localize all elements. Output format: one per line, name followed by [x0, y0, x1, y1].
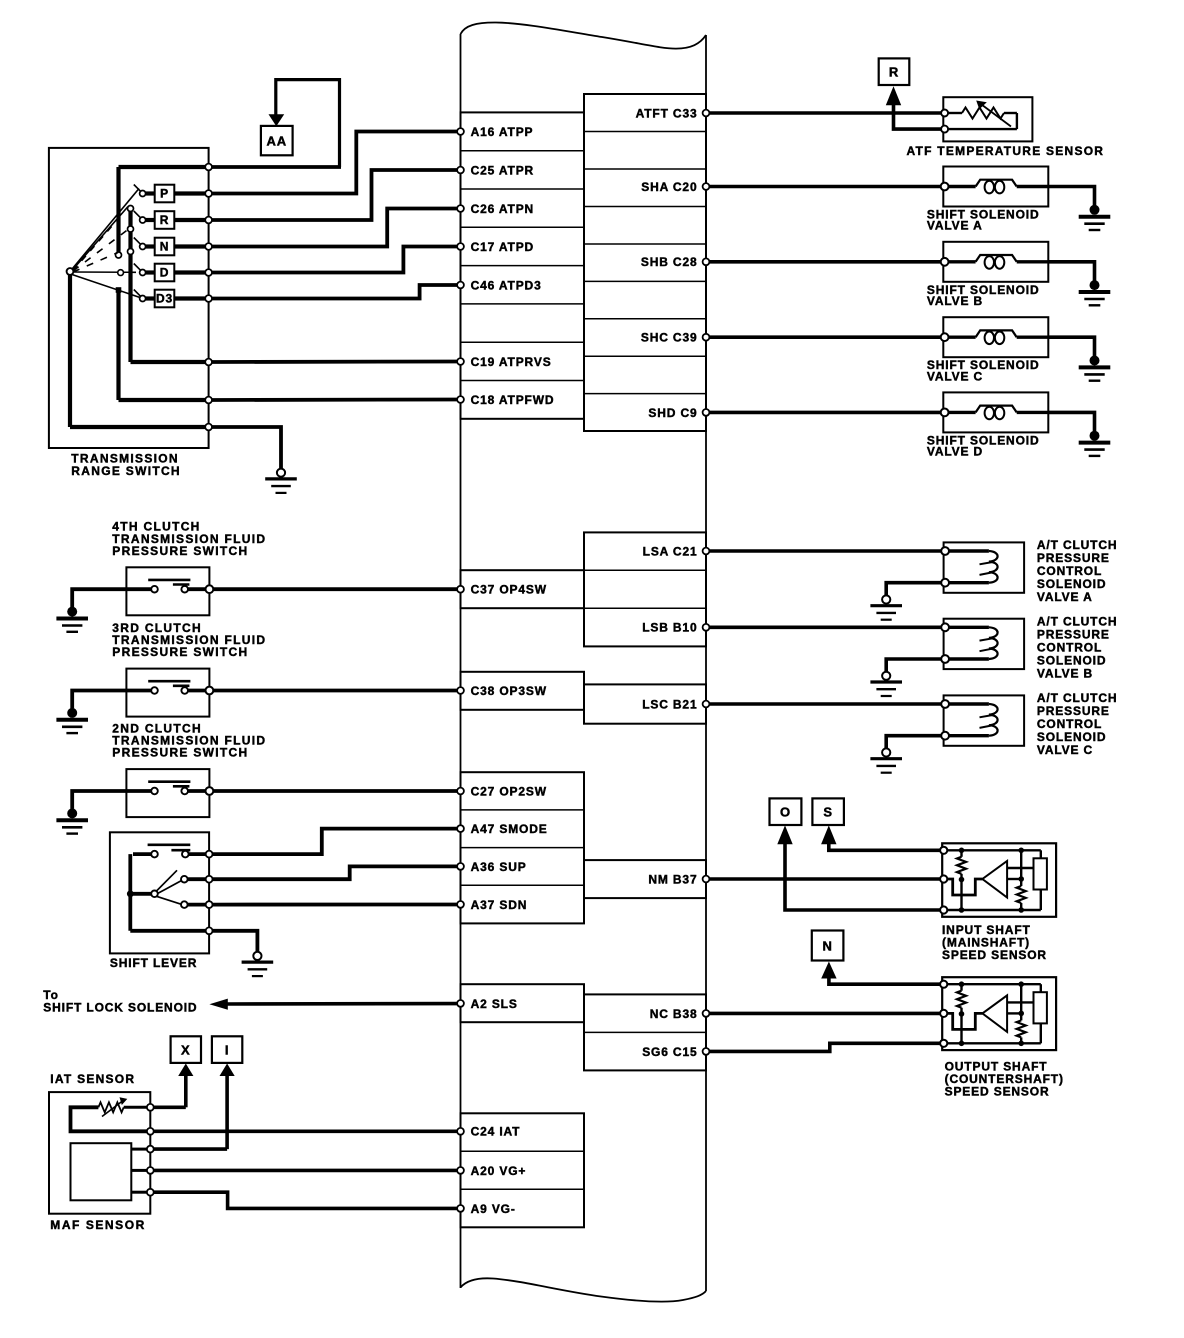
wire ATPD3 (D3 contact to pin C46) [212, 285, 457, 299]
svg-text:SOLENOID: SOLENOID [1037, 730, 1106, 744]
input shaft speed sensor junction [959, 907, 965, 913]
svg-text:NC B38: NC B38 [650, 1007, 698, 1021]
svg-text:A2 SLS: A2 SLS [471, 997, 518, 1011]
svg-text:IAT SENSOR: IAT SENSOR [50, 1072, 135, 1086]
A/T valve C pin 2 [941, 732, 949, 740]
pin LSC B21 [642, 697, 709, 711]
ground of A/T clutch valve C [870, 748, 902, 772]
label To SHIFT LOCK SOLENOID [43, 988, 197, 1014]
svg-text:D: D [160, 266, 170, 280]
arrow into connector N [821, 962, 836, 979]
output shaft speed sensor junction [959, 981, 965, 987]
wire LSB to A/T clutch pressure control solenoid valve B [710, 625, 942, 629]
ground of 3rd clutch pressure switch [56, 708, 88, 733]
svg-text:C26 ATPN: C26 ATPN [471, 202, 534, 216]
wire shift solenoid valve B to ground [1048, 262, 1094, 281]
A/T valve B pin 1 [941, 623, 949, 631]
pin C19 ATPRVS [457, 355, 551, 369]
2nd clutch switch contact 1 [151, 788, 158, 795]
wire rail A to terminal AA row [119, 165, 206, 169]
svg-text:S: S [823, 805, 833, 820]
wire connector R to sensor low side [894, 104, 942, 129]
shift lever terminal GND [206, 927, 213, 934]
4th clutch pressure switch box [126, 567, 209, 615]
connector O [770, 798, 802, 825]
wire rail ATPFWD upper segment [116, 167, 120, 252]
shift lever up contact [181, 876, 188, 883]
input shaft speed sensor bottom rail [947, 909, 1041, 911]
range switch terminal GND [205, 424, 212, 431]
2nd clutch switch output terminal [206, 787, 214, 795]
svg-text:CONTROL: CONTROL [1037, 717, 1102, 731]
svg-text:VALVE A: VALVE A [927, 219, 983, 233]
wire wiper to terminal GND [70, 425, 205, 429]
wire rail ATPRVS upper segment [128, 211, 132, 226]
wire 2nd clutch switch to pin C27 OP2SW [213, 789, 457, 793]
label TRANSMISSION RANGE SWITCH [71, 452, 181, 478]
pin SHB C28 [641, 255, 710, 269]
svg-text:N: N [822, 938, 832, 953]
svg-text:A16 ATPP: A16 ATPP [471, 125, 534, 139]
ground of shift lever [242, 952, 274, 976]
shift solenoid valve C pin [941, 333, 949, 341]
wire shift lever ground run [213, 931, 258, 952]
wire wiper to ground row [68, 275, 72, 427]
wire IAT return [71, 1107, 147, 1131]
MAF stub 2 [131, 1169, 147, 1172]
wire SG6 C15 to output sensor pin 3 [710, 1043, 941, 1051]
svg-text:A/T CLUTCH: A/T CLUTCH [1037, 614, 1118, 628]
svg-text:PRESSURE: PRESSURE [1037, 627, 1110, 641]
svg-text:A36 SUP: A36 SUP [471, 860, 527, 874]
wire rail ATPRVS mid segment [128, 232, 132, 249]
shift lever terminal SDN [206, 901, 213, 908]
ground of shift solenoid valve D [1079, 431, 1111, 456]
ground of 2nd clutch pressure switch [56, 808, 88, 833]
wire 3rd clutch switch contact to terminal [188, 689, 206, 693]
pin A9 VG- [457, 1202, 516, 1216]
wiper line to D contact [74, 271, 137, 273]
pin C46 ATPD3 [457, 278, 542, 292]
input shaft speed sensor load resistor R3 [1034, 850, 1047, 910]
wire IAT to connector X [154, 1106, 186, 1110]
pin SG6 C15 [642, 1045, 709, 1059]
wire common rail to GND terminal [130, 929, 205, 933]
pin SHD C9 [648, 406, 709, 420]
3rd clutch pressure switch box [126, 669, 209, 717]
shift lever terminal SMODE [206, 851, 213, 858]
svg-text:C38 OP3SW: C38 OP3SW [471, 684, 547, 698]
wire rail B to terminal RVS [131, 360, 206, 364]
shift solenoid valve A pin [941, 183, 949, 191]
pin A36 SUP [457, 860, 526, 874]
solenoid coil LA [949, 180, 1049, 194]
label INPUT SHAFT (MAINSHAFT) SPEED SENSOR [942, 923, 1047, 962]
output shaft speed sensor junction [959, 1011, 965, 1017]
svg-text:R: R [160, 213, 170, 227]
svg-text:NM B37: NM B37 [648, 872, 697, 886]
pin A2 SLS [457, 997, 518, 1011]
output shaft speed sensor junction [959, 1041, 965, 1047]
pin C38 OP3SW [457, 684, 547, 698]
output shaft speed sensor box [942, 977, 1056, 1050]
label SHIFT SOLENOID VALVE A [927, 208, 1040, 233]
svg-text:I: I [225, 1042, 229, 1057]
svg-text:AA: AA [267, 133, 287, 148]
wire A/T valve B to ground [886, 659, 941, 672]
wire 3rd clutch switch to pin C38 OP3SW [213, 689, 457, 693]
arrow into connector O [777, 825, 792, 844]
input shaft speed sensor pull resistor R2 [1017, 850, 1026, 910]
svg-text:SOLENOID: SOLENOID [1037, 577, 1106, 591]
input shaft speed sensor amp output wire upper [1007, 867, 1033, 869]
input shaft speed sensor amp output wire [1007, 878, 1021, 880]
A/T valve A pin 1 [941, 547, 949, 555]
output shaft speed sensor amplifier [982, 995, 1007, 1032]
range switch contact D [134, 264, 205, 282]
lever arm lines [157, 870, 182, 904]
input shaft speed sensor junction [959, 877, 965, 883]
wire connector N to output sensor pin 1 [829, 977, 941, 984]
svg-text:ATFT C33: ATFT C33 [636, 106, 698, 120]
shift lever mode switch contact 1 [151, 851, 158, 858]
svg-text:A20 VG+: A20 VG+ [471, 1164, 527, 1178]
pin A20 VG+ [457, 1164, 526, 1178]
output shaft speed sensor top rail [947, 983, 1041, 985]
output shaft speed sensor bottom rail [947, 1042, 1041, 1044]
wire SHB to shift solenoid valve B [710, 260, 942, 264]
connector cell block LSA-LSB [584, 532, 706, 646]
svg-text:C18 ATPFWD: C18 ATPFWD [471, 393, 555, 407]
input shaft speed sensor junction [1018, 848, 1024, 854]
svg-text:PRESSURE SWITCH: PRESSURE SWITCH [112, 645, 248, 659]
wire ATFT C33 to ATF temperature sensor [710, 111, 942, 115]
shift lever box [110, 832, 209, 953]
svg-text:CONTROL: CONTROL [1037, 640, 1102, 654]
wire A/T valve A to ground [886, 583, 941, 596]
wire A/T valve C to ground [886, 736, 941, 749]
shift solenoid valve D box [943, 392, 1048, 432]
MAF terminal 2 [147, 1167, 154, 1174]
wire terminal AA row to connector AA riser [212, 165, 341, 169]
pin C37 OP4SW [457, 583, 547, 597]
wire SUP to pin A36 [213, 866, 458, 879]
svg-text:A/T CLUTCH: A/T CLUTCH [1037, 538, 1118, 552]
svg-text:X: X [181, 1042, 191, 1057]
output shaft speed sensor pin 2 [940, 1010, 947, 1017]
svg-text:SHC C39: SHC C39 [641, 331, 698, 345]
arrow into connector AA [269, 114, 285, 126]
pin C26 ATPN [457, 202, 534, 216]
wire rail ATPRVS lower segment [128, 255, 132, 363]
wiper line to D3 contact [72, 275, 140, 298]
svg-text:RANGE SWITCH: RANGE SWITCH [71, 464, 181, 478]
wire common rail to lever pivot [130, 892, 151, 896]
svg-text:SHIFT LEVER: SHIFT LEVER [110, 956, 197, 970]
3rd clutch switch blade [148, 681, 190, 686]
IAT terminal 2 [147, 1128, 154, 1135]
4th clutch switch contact 1 [151, 586, 158, 593]
svg-text:C24 IAT: C24 IAT [471, 1125, 521, 1139]
svg-text:LSA C21: LSA C21 [643, 544, 698, 558]
wire NM B37 to input sensor pin 2 [710, 877, 941, 881]
wire switch ground run [212, 427, 281, 469]
solenoid coil LD [949, 406, 1049, 420]
shift lever mode switch blade [148, 845, 191, 850]
TCM/ECM torn-edge bottom curve [461, 1278, 707, 1301]
svg-text:LSC B21: LSC B21 [642, 697, 697, 711]
wire rail ATPFWD lower segment [116, 290, 120, 400]
shift lever terminal SUP [206, 876, 213, 883]
connector cell block NC-SG6 [584, 994, 706, 1070]
transmission range switch box [49, 148, 209, 448]
wire 2nd clutch switch to ground [72, 791, 151, 809]
wire connector S to input sensor pin 1 [829, 843, 941, 850]
svg-text:CONTROL: CONTROL [1037, 564, 1102, 578]
svg-text:C19 ATPRVS: C19 ATPRVS [471, 355, 552, 369]
label 2ND TRANSMISSION FLUID PRESSURE SWITCH [112, 722, 266, 760]
wire ATPFWD to pin C18 [212, 398, 457, 402]
range switch terminal RVS [205, 359, 212, 366]
wire shift solenoid valve C to ground [1048, 337, 1094, 356]
svg-text:SHIFT LOCK SOLENOID: SHIFT LOCK SOLENOID [43, 1001, 197, 1015]
svg-text:ATF TEMPERATURE SENSOR: ATF TEMPERATURE SENSOR [907, 144, 1105, 158]
svg-text:C17 ATPD: C17 ATPD [471, 240, 534, 254]
A/T valve B coil [949, 627, 998, 659]
input shaft speed sensor box [942, 843, 1056, 917]
svg-text:SHD C9: SHD C9 [648, 406, 697, 420]
wire 4th clutch switch to ground [72, 589, 151, 607]
wire SHA to shift solenoid valve A [710, 185, 942, 189]
output shaft speed sensor junction [1018, 1041, 1024, 1047]
wire 4th clutch switch to pin C37 OP4SW [213, 587, 457, 591]
ground of shift solenoid valve B [1079, 280, 1111, 305]
svg-text:C37 OP4SW: C37 OP4SW [471, 583, 547, 597]
connector X [171, 1036, 201, 1063]
wire 4th clutch switch contact to terminal [188, 587, 206, 591]
ATF sensor pin 1 [941, 110, 948, 117]
solenoid coil LC [949, 330, 1049, 344]
svg-text:VALVE D: VALVE D [927, 445, 983, 459]
svg-text:VALVE C: VALVE C [1037, 743, 1093, 757]
svg-text:VALVE B: VALVE B [927, 294, 983, 308]
contact rail A open end [116, 252, 122, 258]
connector cell LSC [584, 684, 706, 723]
svg-text:N: N [160, 240, 170, 254]
svg-text:MAF SENSOR: MAF SENSOR [50, 1218, 146, 1232]
range switch contact R [134, 211, 205, 229]
pin A47 SMODE [457, 822, 548, 836]
shift solenoid valve C box [943, 317, 1048, 357]
MAF stub 1 [131, 1148, 147, 1151]
connector cell C38 [461, 672, 585, 710]
pin C25 ATPR [457, 163, 534, 177]
A/T clutch pressure control solenoid valve B box [944, 619, 1025, 669]
shift lever pivot [151, 891, 158, 898]
input shaft speed sensor junction [1018, 907, 1024, 913]
arrow into connector X [178, 1064, 193, 1077]
output shaft speed sensor input jog wire [947, 1013, 982, 1029]
label SHIFT SOLENOID VALVE C [927, 358, 1040, 383]
input shaft speed sensor pin 2 [940, 875, 947, 882]
connector cell block ATFT-SHD [584, 94, 706, 431]
svg-text:PRESSURE SWITCH: PRESSURE SWITCH [112, 544, 248, 558]
svg-text:C27 OP2SW: C27 OP2SW [471, 784, 547, 798]
range switch terminal D3 [205, 295, 212, 302]
wiper D position contact point [118, 270, 124, 276]
shift solenoid valve A box [943, 167, 1048, 207]
wire SMODE to pin A47 [213, 829, 458, 855]
4th clutch switch output terminal [206, 585, 214, 593]
svg-text:VALVE A: VALVE A [1037, 590, 1093, 604]
wire LSA to A/T clutch pressure control solenoid valve A [710, 549, 942, 553]
svg-text:SPEED SENSOR: SPEED SENSOR [945, 1085, 1050, 1099]
A/T valve A coil [949, 551, 998, 583]
wire ATPD (D contact to pin C17) [212, 247, 457, 273]
pin C24 IAT [457, 1125, 520, 1139]
wire 2nd clutch switch contact to terminal [188, 789, 206, 793]
wiper blade to rail B [73, 207, 128, 270]
MAF terminal 3 [147, 1189, 154, 1196]
label 3RD TRANSMISSION FLUID PRESSURE SWITCH [112, 621, 266, 659]
pin A37 SDN [457, 898, 527, 912]
4th clutch switch contact 2 [181, 586, 188, 593]
label OUTPUT SHAFT (COUNTERSHAFT) SPEED SENSOR [945, 1060, 1064, 1099]
connector N [812, 931, 844, 961]
shift lever down contact [181, 901, 188, 908]
ATF sensor pin 2 [941, 126, 948, 133]
range switch terminal FWD [205, 397, 212, 404]
pin LSA C21 [643, 544, 710, 558]
connector cell C37 [461, 570, 585, 608]
input shaft speed sensor input jog wire [947, 879, 982, 895]
wire ATPR (R contact to pin C25) [212, 170, 457, 220]
2nd clutch switch blade [148, 782, 190, 787]
output shaft speed sensor load resistor R3 [1034, 984, 1047, 1043]
A/T clutch pressure control solenoid valve C box [944, 695, 1025, 745]
3rd clutch switch contact 2 [181, 687, 188, 694]
A/T clutch pressure control solenoid valve A box [944, 542, 1025, 592]
output shaft speed sensor amp output wire [1007, 1012, 1021, 1014]
arrow into connector I [220, 1064, 235, 1077]
input shaft speed sensor top rail [947, 849, 1041, 851]
pin C18 ATPFWD [457, 393, 554, 407]
TCM/ECM torn-edge top curve [461, 22, 707, 48]
4th clutch switch blade [148, 580, 190, 585]
label SHIFT SOLENOID VALVE D [927, 433, 1040, 458]
shift lever common rail [128, 854, 132, 931]
range switch contact N [134, 238, 205, 256]
svg-text:O: O [780, 805, 791, 820]
svg-text:A/T CLUTCH: A/T CLUTCH [1037, 691, 1118, 705]
pin SHC C39 [641, 331, 710, 345]
output shaft speed sensor amp output wire upper [1007, 1001, 1033, 1003]
arrow into connector R [886, 86, 901, 105]
input shaft speed sensor junction [959, 848, 965, 854]
connector I [212, 1036, 242, 1063]
range switch terminal R [205, 217, 212, 224]
range switch contact P [134, 185, 205, 203]
pin A16 ATPP [457, 125, 533, 139]
wire SHD to shift solenoid valve D [710, 411, 942, 415]
ground of A/T clutch valve B [870, 672, 902, 696]
arrow into connector S [821, 825, 836, 844]
arrow to shift lock solenoid [209, 999, 227, 1010]
svg-text:SPEED SENSOR: SPEED SENSOR [942, 948, 1047, 962]
wire mode switch to common rail [133, 852, 151, 856]
wire connector O to input sensor pin 3 [785, 843, 941, 910]
svg-text:VALVE B: VALVE B [1037, 666, 1093, 680]
svg-text:SOLENOID: SOLENOID [1037, 653, 1106, 667]
output shaft speed sensor pull resistor R2 [1017, 984, 1026, 1043]
wire SDN to pin A37 [213, 903, 458, 907]
TCM/ECM connector strip left edge [460, 34, 462, 1288]
connector AA [261, 126, 293, 155]
shift solenoid valve B box [943, 242, 1048, 282]
wire IAT to pin C24 [154, 1130, 457, 1134]
2nd clutch switch contact 2 [181, 788, 188, 795]
shift lever mode switch contact 2 [182, 851, 189, 858]
wiper dashed position line 1 [73, 222, 116, 271]
A/T valve C pin 1 [941, 700, 949, 708]
solenoid coil LB [949, 255, 1049, 269]
ground of shift solenoid valve C [1079, 356, 1111, 381]
wire ATPP (P contact to pin A16) [212, 132, 457, 194]
label 4TH TRANSMISSION FLUID PRESSURE SWITCH [112, 520, 266, 558]
pin LSB B10 [642, 621, 709, 635]
label A/T CLUTCH PRESSURE CONTROL SOLENOID VALVE A [1037, 538, 1118, 604]
svg-text:A9 VG-: A9 VG- [471, 1202, 516, 1216]
thermistor element [948, 108, 1017, 130]
MAF sensor box [71, 1143, 132, 1200]
svg-text:A37 SDN: A37 SDN [471, 898, 528, 912]
output shaft speed sensor junction [1018, 1011, 1024, 1017]
MAF terminal 1 [147, 1146, 154, 1153]
shift solenoid valve B pin [941, 258, 949, 266]
input shaft speed sensor bias resistor R1 [957, 850, 966, 910]
wiper dashed position line 3 [73, 253, 118, 273]
ground of shift solenoid valve A [1079, 205, 1111, 230]
contact rail B top point [128, 206, 134, 212]
IAT thermistor [98, 1102, 146, 1112]
range switch terminal AA [205, 164, 212, 171]
ground of A/T clutch valve A [870, 595, 902, 619]
svg-text:PRESSURE: PRESSURE [1037, 551, 1110, 565]
A/T valve C coil [949, 704, 998, 736]
output shaft speed sensor pin 1 [940, 981, 947, 988]
svg-text:SG6 C15: SG6 C15 [642, 1045, 697, 1059]
range switch terminal D [205, 269, 212, 276]
input shaft speed sensor pin 3 [940, 906, 947, 913]
range switch wiper pivot [67, 268, 74, 275]
contact rail B middle point [128, 226, 134, 232]
svg-text:D3: D3 [156, 292, 173, 306]
contact rail A lower point [116, 287, 122, 293]
connector R [879, 58, 910, 85]
wire 3rd clutch switch to ground [72, 691, 151, 709]
svg-text:SHA C20: SHA C20 [641, 180, 697, 194]
pin C27 OP2SW [457, 784, 547, 798]
A/T valve B pin 2 [941, 655, 949, 663]
wiper dashed position line 2 [73, 230, 128, 272]
svg-text:C46 ATPD3: C46 ATPD3 [471, 278, 542, 292]
wiper blade to P contact [73, 189, 140, 269]
svg-text:SHB C28: SHB C28 [641, 255, 698, 269]
MAF stub 3 [131, 1191, 147, 1194]
pin ATFT C33 [636, 106, 710, 120]
wire connector I drop [225, 1075, 229, 1150]
contact rail B open end [128, 249, 134, 255]
